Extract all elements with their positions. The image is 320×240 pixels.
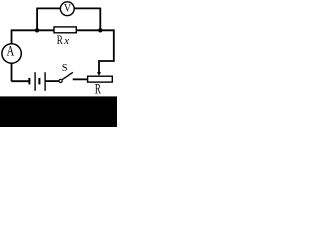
svg-text:R: R bbox=[95, 81, 101, 98]
svg-text:V: V bbox=[64, 2, 71, 15]
svg-text:S: S bbox=[62, 63, 68, 74]
svg-text:A: A bbox=[7, 43, 15, 59]
svg-text:x: x bbox=[63, 35, 69, 47]
svg-text:R: R bbox=[57, 34, 63, 48]
